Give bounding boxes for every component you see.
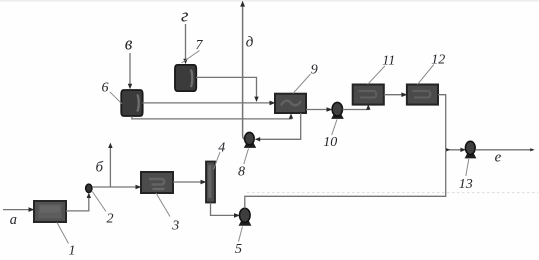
svg-text:в: в bbox=[125, 33, 133, 54]
arrow into drum 7 bbox=[183, 59, 187, 64]
wire: drum 6 bottom outlet to apparatus 9 bottom bbox=[132, 116, 291, 119]
drum 7 (vessel) bbox=[175, 65, 196, 91]
leader line to label 2 bbox=[92, 192, 106, 212]
label 3 bbox=[171, 218, 179, 233]
pump 8 bbox=[244, 132, 256, 147]
arrow into pump 5 bbox=[234, 213, 240, 218]
label 2 bbox=[107, 211, 114, 226]
arrow into column 4 bbox=[201, 180, 207, 185]
label d (stream) bbox=[246, 35, 254, 51]
leader line to label 5 bbox=[239, 227, 243, 242]
label a (stream) bbox=[10, 212, 17, 228]
svg-text:11: 11 bbox=[382, 54, 395, 69]
leader line to label 11 bbox=[368, 66, 385, 84]
arrow up into apparatus 9 bottom bbox=[289, 113, 293, 118]
arrow into apparatus 9 bbox=[270, 101, 276, 106]
arrow into apparatus 3 bbox=[136, 185, 142, 190]
wire: stream d (pump 8 discharge up) bbox=[243, 4, 246, 140]
node 2 (mixer) bbox=[86, 184, 92, 192]
svg-text:9: 9 bbox=[311, 63, 318, 78]
leader line to label 13 bbox=[466, 159, 469, 176]
wire: node 2 to apparatus 3 bbox=[92, 186, 137, 188]
svg-text:4: 4 bbox=[218, 140, 225, 155]
column 4 (tall thin column) bbox=[206, 162, 215, 203]
leader line to label 10 bbox=[332, 119, 337, 135]
wire: junction to pump 13 bbox=[446, 149, 462, 151]
svg-text:б: б bbox=[96, 159, 104, 175]
arrow into pump 8 bbox=[255, 137, 260, 141]
faint artifact line bbox=[247, 192, 538, 194]
label 5 bbox=[235, 242, 242, 257]
svg-text:8: 8 bbox=[238, 164, 245, 179]
drum 6 (vessel) bbox=[121, 90, 142, 116]
label 11 bbox=[382, 54, 395, 69]
wire: apparatus 3 to column 4 bbox=[173, 181, 202, 183]
svg-text:е: е bbox=[495, 149, 502, 165]
arrow into apparatus 1 bbox=[29, 207, 35, 212]
leader line to label 1 bbox=[57, 223, 69, 244]
wire: drum 7 outlet over and down to join bbox=[196, 77, 257, 98]
svg-text:5: 5 bbox=[235, 242, 242, 257]
wire: apparatus 1 outlet up to node 2 bbox=[66, 195, 89, 211]
svg-text:д: д bbox=[246, 35, 254, 51]
label b (stream) bbox=[96, 159, 104, 175]
label e (stream) bbox=[495, 149, 502, 165]
leader line to label 8 bbox=[244, 149, 249, 165]
leader line to label 3 bbox=[156, 193, 170, 217]
arrow into node 2 bbox=[87, 193, 91, 198]
pump 13 bbox=[465, 141, 477, 158]
svg-text:2: 2 bbox=[107, 211, 114, 226]
svg-text:6: 6 bbox=[102, 80, 109, 95]
svg-text:г: г bbox=[181, 5, 188, 26]
label 13 bbox=[459, 177, 473, 192]
arrow into drum 6 bbox=[128, 84, 132, 89]
wire: stream a inlet to apparatus 1 bbox=[3, 209, 30, 211]
pump 5 bbox=[239, 208, 252, 226]
wire: pump 5 discharge to junction (long recycle) bbox=[245, 151, 446, 209]
svg-text:3: 3 bbox=[171, 218, 179, 233]
label 10 bbox=[323, 135, 337, 150]
arrow of stream e bbox=[530, 148, 535, 151]
svg-text:13: 13 bbox=[459, 177, 473, 192]
apparatus 11 (heat exchanger box) bbox=[353, 85, 384, 105]
arrow up into apparatus 11 bbox=[366, 104, 370, 109]
wire: column 4 bottom to pump 5 bbox=[211, 203, 237, 216]
label 1 bbox=[69, 244, 76, 259]
svg-text:12: 12 bbox=[431, 53, 445, 68]
pump 10 bbox=[331, 102, 344, 119]
leader line to label 9 bbox=[293, 74, 311, 93]
label 8 bbox=[238, 164, 245, 179]
wire: pump 10 discharge to apparatus 11 bottom bbox=[343, 108, 369, 110]
apparatus 3 (box) bbox=[141, 172, 173, 193]
leader line to label 12 bbox=[418, 65, 434, 85]
apparatus 12 (heat exchanger box) bbox=[407, 85, 438, 105]
arrow at junction bbox=[446, 148, 450, 151]
arrow of stream b bbox=[108, 143, 112, 148]
svg-text:а: а bbox=[10, 212, 17, 228]
svg-text:1: 1 bbox=[69, 244, 76, 259]
arrow of stream d (top) bbox=[240, 1, 245, 7]
label v (stream) bbox=[125, 33, 133, 54]
leader line to label 6 bbox=[110, 92, 122, 104]
wire: apparatus 12 outlet down to junction bbox=[438, 95, 446, 150]
leader line to label 4 bbox=[214, 152, 221, 170]
label g (stream) bbox=[181, 5, 188, 26]
apparatus 1 (reactor box) bbox=[34, 201, 66, 222]
wire: stream g feed down to drum 7 bbox=[185, 24, 187, 61]
apparatus 9 (heat exchanger box) bbox=[275, 94, 306, 113]
wire: apparatus 9 bottom outlet to pump 8 bbox=[258, 113, 301, 139]
svg-text:7: 7 bbox=[196, 38, 204, 53]
label 12 bbox=[431, 53, 445, 68]
label 4 bbox=[218, 140, 225, 155]
wire: apparatus 9 outlet to pump 10 bbox=[306, 109, 329, 111]
label 7 bbox=[196, 38, 204, 53]
wire: stream v feed down to drum 6 bbox=[129, 53, 131, 86]
wire: drum 6 outlet to apparatus 9 bbox=[142, 102, 271, 104]
arrow into pump 13 bbox=[460, 148, 466, 152]
wire: pump 13 outlet, stream e bbox=[475, 149, 531, 151]
label 6 bbox=[102, 80, 109, 95]
label 9 bbox=[311, 63, 318, 78]
arrow into apparatus 12 bbox=[401, 92, 407, 97]
svg-text:10: 10 bbox=[323, 135, 337, 150]
arrow down at join bbox=[254, 97, 258, 102]
wire: stream b branch (up) bbox=[109, 145, 111, 187]
leader line to label 7 bbox=[182, 51, 200, 64]
wire: apparatus 11 to apparatus 12 bbox=[384, 94, 404, 96]
arrow into pump 10 bbox=[327, 107, 333, 112]
